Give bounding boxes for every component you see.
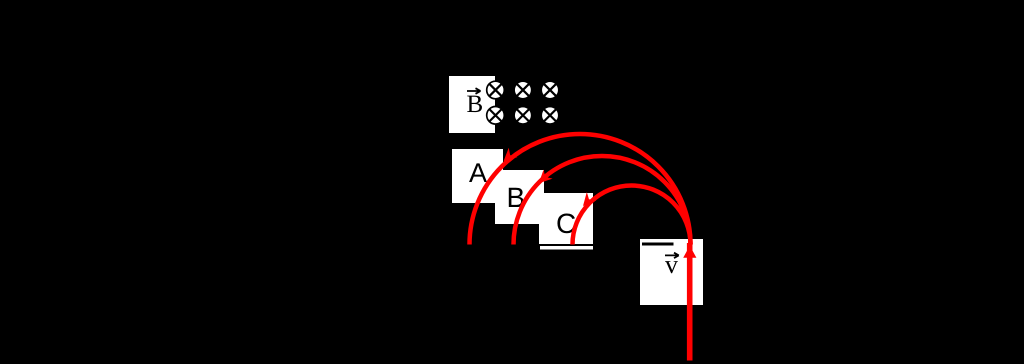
label B	[509, 188, 524, 207]
black bar in box v	[642, 243, 674, 246]
box C	[539, 193, 593, 244]
box B	[495, 170, 544, 224]
box A	[452, 149, 503, 203]
red velocity arrow line	[687, 243, 693, 361]
arc path B (middle)	[514, 156, 691, 245]
label v vector	[665, 261, 678, 273]
arrowhead on arc C	[578, 192, 596, 210]
label A	[469, 163, 487, 182]
arrowhead on arc B	[534, 170, 552, 188]
red velocity arrowhead	[683, 246, 696, 258]
label C	[557, 213, 575, 233]
box B-field	[449, 76, 495, 133]
arc path A (largest)	[470, 134, 691, 244]
white bar under box C	[540, 246, 593, 250]
arrowhead on arc A	[499, 148, 517, 166]
label B vector	[467, 96, 482, 112]
arc path C (smallest)	[573, 186, 691, 245]
field symbol X1 (into page)	[487, 81, 559, 124]
box v	[640, 239, 703, 305]
